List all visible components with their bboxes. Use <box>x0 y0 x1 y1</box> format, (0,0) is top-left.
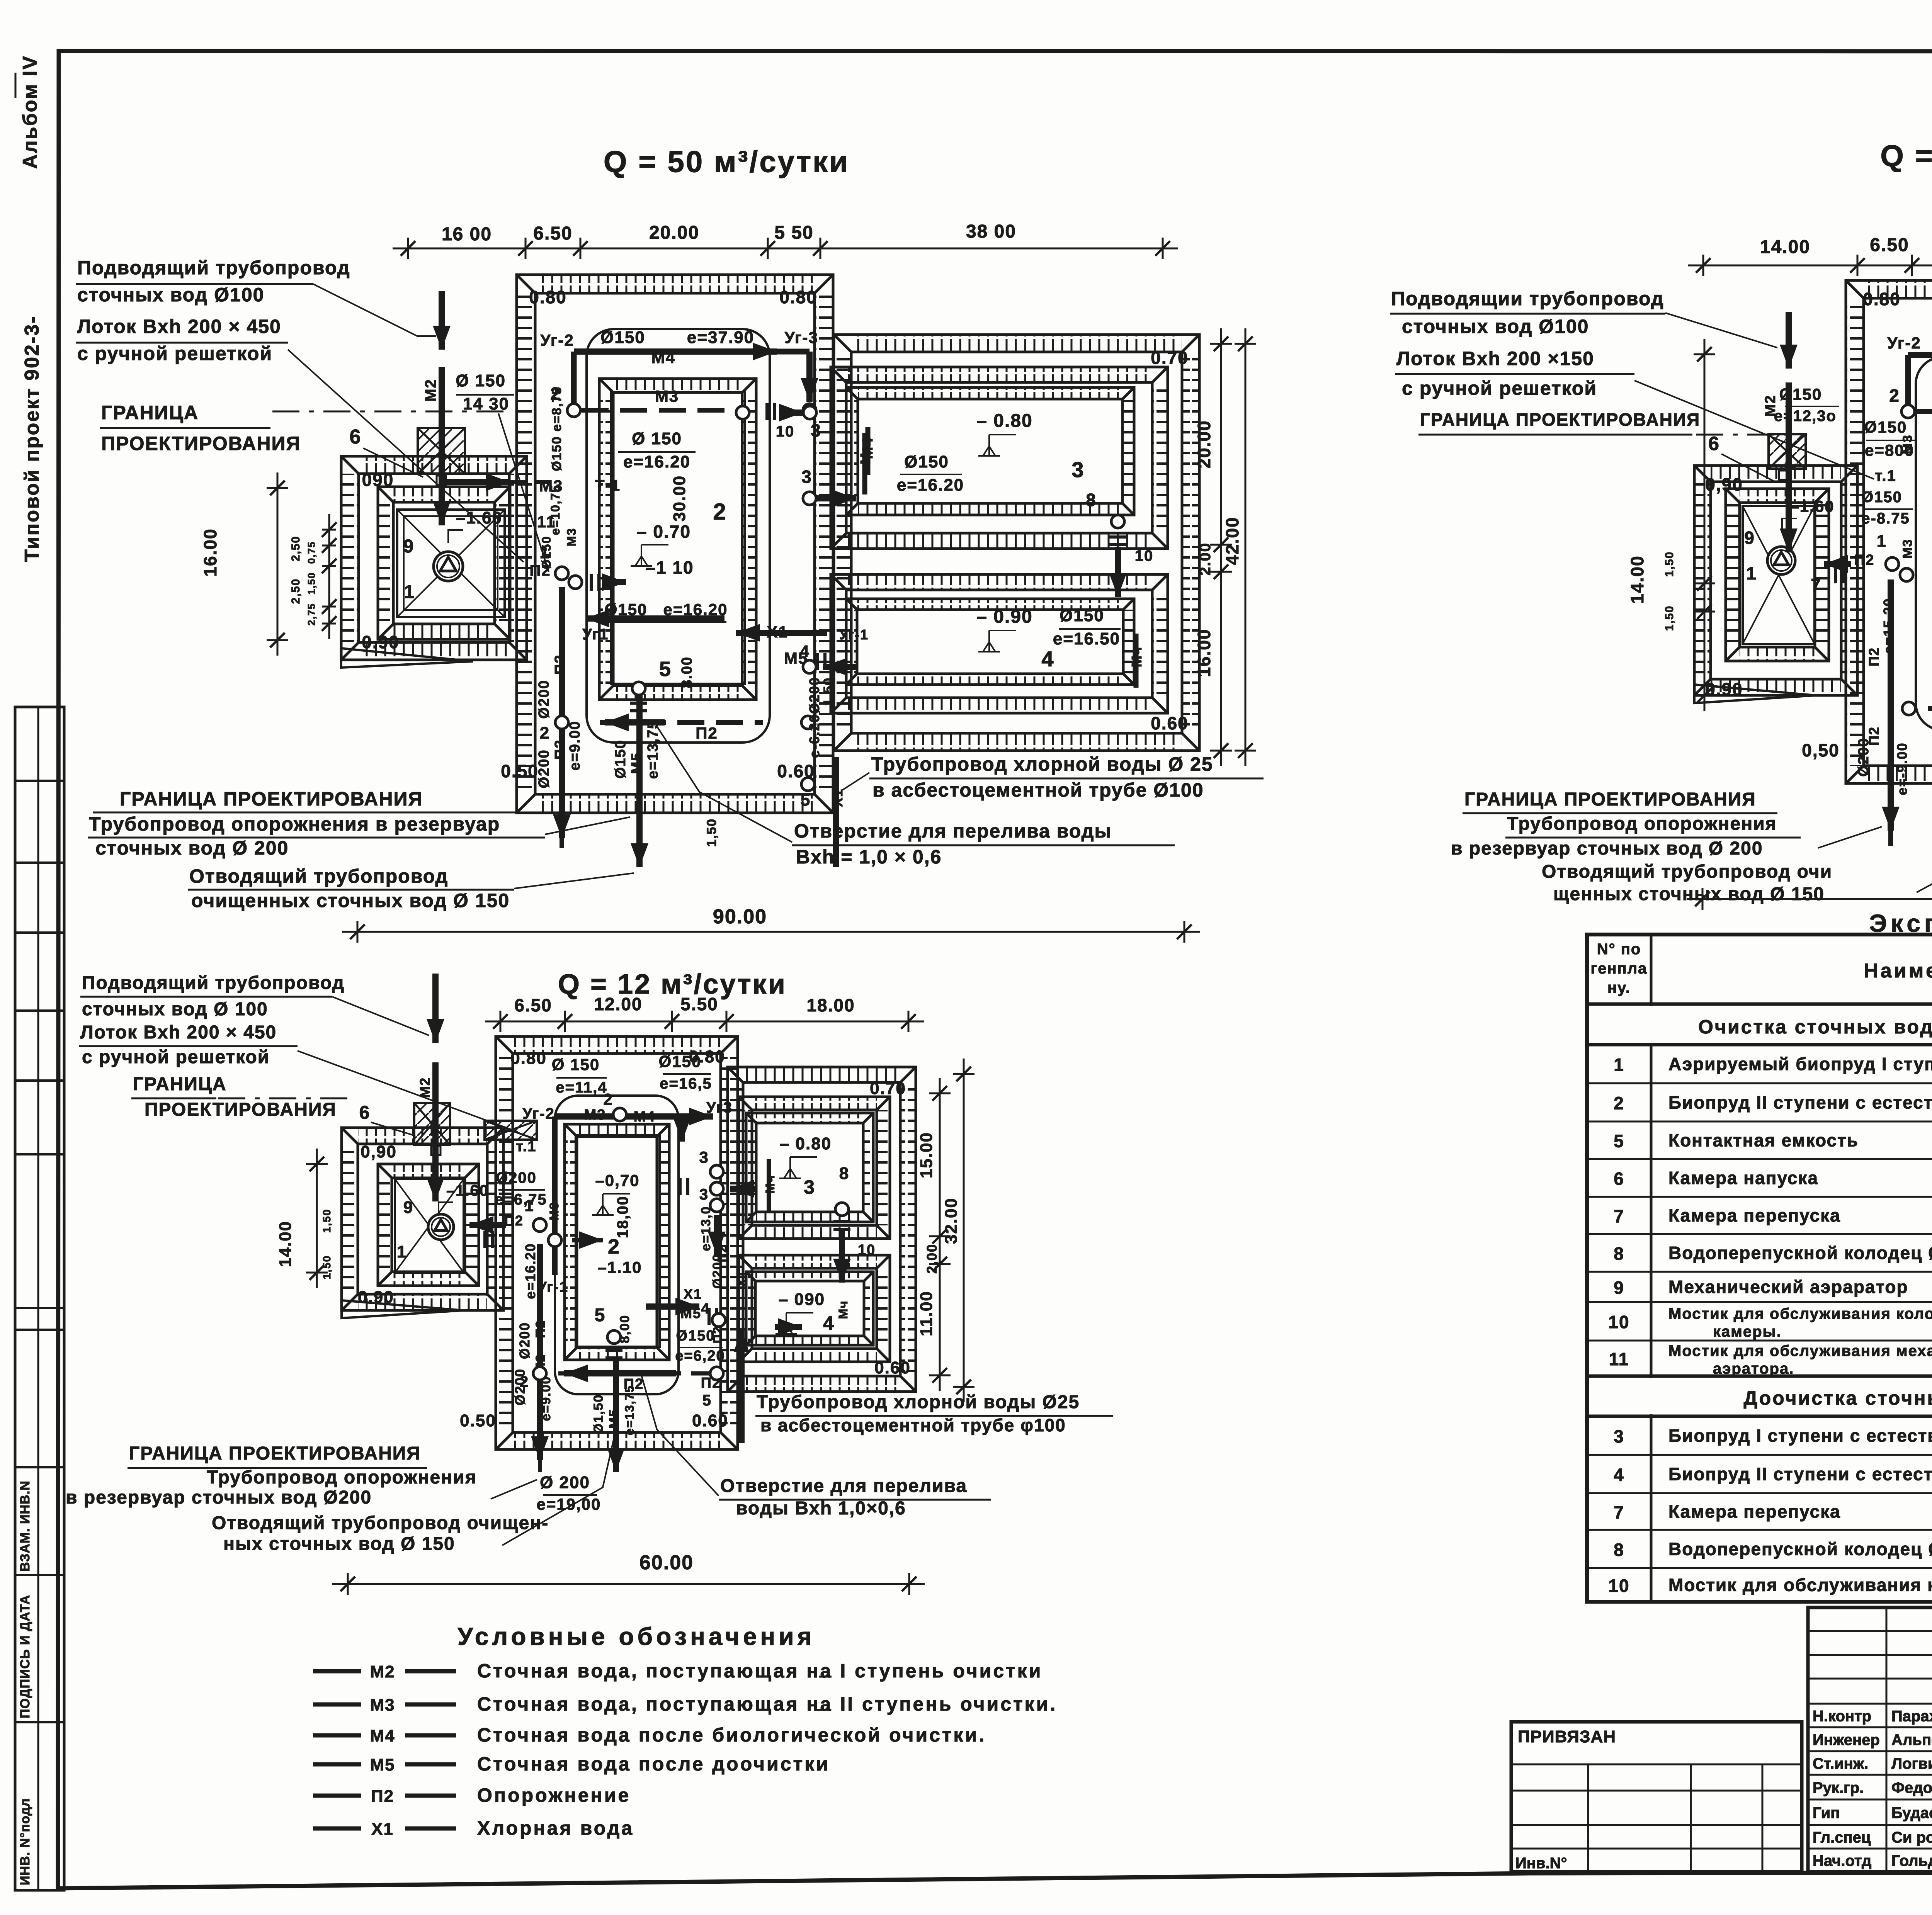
svg-text:16 00: 16 00 <box>442 224 492 245</box>
pond 4 Q12 <box>739 1255 890 1362</box>
svg-text:– 0.80: – 0.80 <box>780 1134 832 1153</box>
explication header <box>1591 939 1932 998</box>
svg-text:0.60: 0.60 <box>777 761 815 781</box>
pipe P2 drop Q12 <box>512 1244 553 1472</box>
svg-text:2: 2 <box>520 1373 529 1390</box>
title block signature table <box>1808 1607 1932 1872</box>
svg-text:Биопруд II ступени с естествен: Биопруд II ступени с естественной аэраци… <box>1668 1464 1932 1484</box>
pipe M2 inflow Q12 <box>417 974 444 1201</box>
pond 2 inner band Q12 <box>565 1124 669 1360</box>
svg-text:9: 9 <box>403 1198 413 1217</box>
svg-text:П2: П2 <box>711 1326 724 1344</box>
svg-text:7: 7 <box>1614 1502 1624 1522</box>
svg-text:10: 10 <box>858 1242 876 1258</box>
svg-text:с ручной решеткой: с ручной решеткой <box>1402 377 1597 399</box>
svg-text:Логвинская: Логвинская <box>1891 1755 1932 1772</box>
svg-text:Отводящий трубопровод очище: Отводящий трубопровод очищен- <box>212 1513 549 1533</box>
svg-text:П2: П2 <box>552 739 568 760</box>
pond 3 labels Q50 <box>803 406 1085 494</box>
svg-text:Х1: Х1 <box>830 788 845 807</box>
svg-text:Аэрируемый биопруд I ступе: Аэрируемый биопруд I ступени <box>1668 1054 1932 1074</box>
svg-text:10: 10 <box>1608 1576 1629 1596</box>
legend row Х1 <box>313 1817 634 1839</box>
svg-text:М3: М3 <box>1900 539 1915 558</box>
svg-text:аэратора.: аэратора. <box>1713 1360 1794 1377</box>
svg-text:Наименование: Наименование <box>1864 960 1932 982</box>
explication row 6 <box>1614 1168 1932 1189</box>
project title rotated <box>21 316 43 562</box>
svg-text:М3: М3 <box>370 1696 395 1714</box>
svg-text:ПОДПИСЬ И ДАТА: ПОДПИСЬ И ДАТА <box>18 1595 32 1718</box>
svg-text:0,75: 0,75 <box>306 541 317 564</box>
svg-text:0.80: 0.80 <box>1863 289 1901 309</box>
svg-text:Гл.спец: Гл.спец <box>1813 1829 1871 1846</box>
aerator Q12 <box>428 1214 454 1240</box>
svg-text:e=16.20: e=16.20 <box>623 452 690 471</box>
svg-text:9: 9 <box>1744 528 1755 548</box>
svg-text:0.70: 0.70 <box>870 1079 906 1098</box>
svg-text:2.00: 2.00 <box>1197 542 1214 576</box>
svg-text:П2: П2 <box>533 1320 548 1338</box>
svg-text:Мостик для обслуживания ме: Мостик для обслуживания механического <box>1668 1342 1932 1359</box>
svg-text:М3: М3 <box>584 1107 606 1123</box>
svg-text:090: 090 <box>362 470 394 490</box>
pipe P2 left drop Q50 <box>530 542 626 848</box>
svg-text:ну.: ну. <box>1607 979 1631 996</box>
svg-text:Отводящий трубопровод: Отводящий трубопровод <box>189 865 448 887</box>
svg-text:0,90: 0,90 <box>1705 474 1743 494</box>
svg-text:–1.60: –1.60 <box>1790 497 1834 515</box>
pond 2 outer berm Q50 <box>517 275 833 813</box>
svg-text:Трубопровод опорожнения в р: Трубопровод опорожнения в резервуар <box>89 813 500 835</box>
Q50 left callout labels <box>76 257 524 562</box>
svg-text:18.00: 18.00 <box>806 995 855 1015</box>
pipe M4 over pond Q25 <box>1908 294 1932 411</box>
legend title <box>457 1623 815 1650</box>
svg-text:Ø200: Ø200 <box>806 677 822 714</box>
svg-text:9: 9 <box>403 536 415 557</box>
svg-text:Ø150: Ø150 <box>676 1328 715 1344</box>
svg-text:М4: М4 <box>634 1109 656 1125</box>
inlet chamber 6 Q25 <box>1769 434 1806 480</box>
svg-text:ПРОЕКТИРОВАНИЯ: ПРОЕКТИРОВАНИЯ <box>101 433 301 454</box>
svg-text:Сточная вода после биоло: Сточная вода после биологической очистки… <box>477 1724 986 1746</box>
pipe X1 Q50 <box>736 623 869 867</box>
svg-text:e=13,75: e=13,75 <box>622 1385 636 1436</box>
svg-text:П2: П2 <box>1854 552 1874 568</box>
svg-text:6.50: 6.50 <box>1870 235 1909 255</box>
album title rotated <box>15 55 41 169</box>
svg-text:Контактная емкость: Контактная емкость <box>1668 1130 1859 1150</box>
right dimensions Q50 <box>1194 328 1256 766</box>
svg-text:e=15.20: e=15.20 <box>1881 598 1896 654</box>
svg-text:e=12,3о: e=12,3о <box>1774 408 1837 425</box>
explication row 7 <box>1614 1205 1932 1226</box>
svg-text:ИНВ. N°подл: ИНВ. N°подл <box>18 1798 32 1885</box>
svg-text:e=9.00: e=9.00 <box>567 720 583 770</box>
svg-text:1,50: 1,50 <box>321 1255 333 1279</box>
svg-text:Доочистка сточных вод: Доочистка сточных вод <box>1743 1387 1932 1409</box>
pipe X1 Q12 <box>646 1270 749 1443</box>
svg-text:1: 1 <box>404 582 415 602</box>
svg-text:Ø150: Ø150 <box>612 740 629 779</box>
svg-text:4: 4 <box>823 1312 835 1334</box>
ponds 3-4 outer berm Q12 <box>728 1067 916 1392</box>
pipe M3 mid Q25 <box>1889 386 1932 440</box>
svg-text:Ø200: Ø200 <box>536 680 552 719</box>
svg-text:38 00: 38 00 <box>966 221 1016 242</box>
svg-text:60.00: 60.00 <box>639 1551 694 1574</box>
svg-text:Мостик для обслуживания кол: Мостик для обслуживания колодцев и <box>1668 1305 1932 1322</box>
svg-text:2: 2 <box>1614 1093 1624 1113</box>
svg-text:Камера напуска: Камера напуска <box>1668 1168 1818 1188</box>
pond 3 Q12 <box>739 1097 890 1239</box>
svg-text:1,50: 1,50 <box>306 572 317 595</box>
svg-text:М3: М3 <box>655 387 679 405</box>
svg-text:генпла: генпла <box>1591 960 1648 977</box>
svg-text:с ручной решеткой: с ручной решеткой <box>77 343 272 364</box>
title block left box <box>1511 1722 1802 1872</box>
svg-text:Опорожнение: Опорожнение <box>477 1784 631 1806</box>
svg-text:Ø200: Ø200 <box>517 1322 532 1359</box>
explication row 8b <box>1614 1539 1932 1560</box>
pond 3 Q50 <box>831 367 1168 549</box>
node 3 right + M4 drop Q50 <box>801 427 876 507</box>
svg-text:П2: П2 <box>1866 647 1882 666</box>
svg-text:Лоток Bxh 200 × 450: Лоток Bxh 200 × 450 <box>80 1022 277 1043</box>
svg-text:П2: П2 <box>696 724 718 742</box>
svg-text:Сточная вода после доочи: Сточная вода после доочистки <box>477 1753 830 1775</box>
svg-text:Гип: Гип <box>1813 1805 1840 1822</box>
svg-text:ПРИВЯЗАН: ПРИВЯЗАН <box>1518 1727 1616 1746</box>
pond 2 outer berm Q25 <box>1846 280 1932 783</box>
svg-text:7: 7 <box>1811 575 1821 595</box>
svg-text:Уг-1: Уг-1 <box>839 627 869 642</box>
svg-text:М2: М2 <box>422 379 439 402</box>
plan Q=50 top dimension line <box>393 221 1178 259</box>
svg-text:0.60: 0.60 <box>874 1358 911 1377</box>
svg-text:0.80: 0.80 <box>529 287 567 307</box>
svg-text:0.80: 0.80 <box>510 1049 547 1068</box>
svg-text:Ø150: Ø150 <box>1861 489 1902 506</box>
svg-text:8.00: 8.00 <box>679 656 695 688</box>
svg-text:Мч: Мч <box>763 1175 777 1194</box>
inlet chamber 6 Q50 <box>418 428 465 485</box>
svg-text:П2: П2 <box>1866 726 1882 746</box>
Q50 bottom callout labels <box>88 788 634 911</box>
svg-text:Парахина: Парахина <box>1891 1708 1932 1725</box>
svg-text:Механический аэраратор: Механический аэраратор <box>1668 1277 1908 1297</box>
svg-text:8,00: 8,00 <box>617 1315 632 1343</box>
svg-text:ГРАНИЦА ПРОЕКТИРОВАНИЯ: ГРАНИЦА ПРОЕКТИРОВАНИЯ <box>120 788 423 810</box>
left dimension Q12 <box>276 1149 333 1288</box>
svg-text:Гольдман: Гольдман <box>1891 1852 1932 1869</box>
svg-text:камеры.: камеры. <box>1713 1323 1782 1340</box>
bottom dimension 60.00 Q12 <box>332 1551 925 1595</box>
svg-text:0.70: 0.70 <box>1151 348 1189 368</box>
svg-text:5: 5 <box>1614 1131 1624 1151</box>
svg-text:2: 2 <box>713 499 726 525</box>
svg-text:12.00: 12.00 <box>594 994 642 1014</box>
svg-text:20.00: 20.00 <box>649 223 699 243</box>
svg-text:П2: П2 <box>624 1376 644 1392</box>
svg-text:6: 6 <box>359 1103 371 1123</box>
svg-text:М5: М5 <box>370 1755 395 1774</box>
svg-text:Федорова: Федорова <box>1891 1779 1932 1796</box>
small labels Q25 <box>1705 289 1932 760</box>
svg-text:1,50: 1,50 <box>1663 605 1676 631</box>
svg-text:в резервуар сточных вод Ø200: в резервуар сточных вод Ø200 <box>66 1487 372 1508</box>
svg-text:3: 3 <box>1614 1426 1624 1446</box>
svg-text:1: 1 <box>1614 1055 1624 1075</box>
svg-text:Инв.N°: Инв.N° <box>1515 1855 1567 1872</box>
svg-text:8: 8 <box>1614 1540 1624 1560</box>
right dimensions Q12 <box>917 1059 975 1402</box>
Q12 right bottom callouts <box>641 1375 1113 1519</box>
svg-text:Х1: Х1 <box>371 1820 394 1839</box>
svg-text:М5: М5 <box>607 1409 621 1428</box>
svg-text:М4: М4 <box>651 348 675 367</box>
svg-text:Ø150 e=8,75: Ø150 e=8,75 <box>549 386 564 471</box>
svg-text:Отводящий трубопровод очи: Отводящий трубопровод очи <box>1542 861 1832 882</box>
svg-text:ных сточных вод Ø 150: ных сточных вод Ø 150 <box>223 1534 455 1554</box>
svg-text:e=6,75: e=6,75 <box>495 1191 547 1208</box>
plan Q=12 top dimension <box>485 994 924 1032</box>
svg-text:Ø1,50: Ø1,50 <box>591 1394 606 1434</box>
svg-text:1: 1 <box>1746 563 1757 583</box>
svg-text:– 0.90: – 0.90 <box>976 607 1032 627</box>
svg-text:10: 10 <box>776 423 795 440</box>
svg-text:М2: М2 <box>370 1662 395 1681</box>
Q25 left callout labels <box>1390 288 1874 479</box>
svg-text:Q = 12 м³/сутки: Q = 12 м³/сутки <box>558 969 787 1000</box>
svg-text:Трубопровод опорожнения: Трубопровод опорожнения <box>1507 814 1777 834</box>
node 1 Q12 <box>469 1196 603 1249</box>
svg-text:16.00: 16.00 <box>200 528 220 576</box>
svg-text:в асбестоцементной трубе φ100: в асбестоцементной трубе φ100 <box>760 1415 1066 1435</box>
aerator 9 Q50 <box>434 552 463 581</box>
svg-text:Bxh = 1,0 × 0,6: Bxh = 1,0 × 0,6 <box>796 846 942 868</box>
svg-text:0.50: 0.50 <box>501 761 539 781</box>
pipe M3/M4 top Q12 <box>555 1090 757 1275</box>
svg-text:4: 4 <box>1614 1465 1624 1485</box>
svg-text:ГРАНИЦА: ГРАНИЦА <box>101 402 199 423</box>
svg-text:Уг-2: Уг-2 <box>1887 334 1921 352</box>
node 2 Q50 <box>550 384 580 417</box>
pipe M5 drop Q12 <box>591 1330 636 1472</box>
svg-text:– 0.70: – 0.70 <box>637 522 691 542</box>
svg-text:в асбестоцементной трубе Ø: в асбестоцементной трубе Ø100 <box>872 779 1204 801</box>
explication row 4b <box>1614 1464 1932 1485</box>
left dimension Q25 <box>1627 339 1715 711</box>
bottom dimension 67.00 Q25 <box>1687 874 1932 910</box>
svg-text:2: 2 <box>1889 386 1900 406</box>
pond 1 outer berm Q12 <box>342 1128 503 1318</box>
svg-text:воды Bxh 1,0×0,6: воды Bxh 1,0×0,6 <box>736 1498 906 1519</box>
svg-text:6: 6 <box>1708 433 1720 454</box>
svg-text:4: 4 <box>800 642 810 660</box>
svg-text:16.00: 16.00 <box>1194 629 1214 677</box>
svg-text:1: 1 <box>524 1196 534 1215</box>
svg-text:e=16,5: e=16,5 <box>660 1075 712 1092</box>
pipe M3 dashed mid Q50 <box>582 387 803 421</box>
svg-text:Ø150: Ø150 <box>600 328 645 347</box>
svg-text:М4: М4 <box>370 1726 395 1745</box>
svg-text:0.80: 0.80 <box>779 287 817 307</box>
svg-text:Уг-2: Уг-2 <box>522 1105 555 1122</box>
svg-text:e=11,4: e=11,4 <box>556 1079 607 1096</box>
pond 1 outer berm Q50 <box>341 456 527 668</box>
svg-text:Уг-1: Уг-1 <box>537 1279 568 1295</box>
svg-text:2: 2 <box>608 1235 620 1258</box>
svg-text:1,50: 1,50 <box>1663 551 1676 577</box>
svg-text:Водоперепускной колодец Ø: Водоперепускной колодец Ø1.5 <box>1668 1539 1932 1559</box>
explication row 10b <box>1608 1575 1932 1596</box>
svg-text:Рук.гр.: Рук.гр. <box>1813 1779 1864 1796</box>
svg-text:М3: М3 <box>1900 434 1915 454</box>
svg-text:Биопруд II ступени с естествен: Биопруд II ступени с естественной аэраци… <box>1668 1093 1932 1113</box>
legend row П2 <box>313 1784 631 1806</box>
inlet chamber 6 Q12 <box>414 1103 537 1155</box>
svg-text:с ручной решеткой: с ручной решеткой <box>82 1047 270 1067</box>
svg-text:т.1: т.1 <box>516 1138 537 1155</box>
svg-text:3: 3 <box>811 420 821 440</box>
svg-text:e=16.20: e=16.20 <box>897 476 964 494</box>
svg-text:e=19,00: e=19,00 <box>537 1495 601 1513</box>
svg-text:0.50: 0.50 <box>460 1411 496 1430</box>
svg-text:П2: П2 <box>504 1213 524 1229</box>
svg-text:М3: М3 <box>565 528 578 546</box>
svg-text:5.50: 5.50 <box>680 994 718 1014</box>
svg-text:3: 3 <box>699 1148 709 1166</box>
svg-text:Камера перепуска: Камера перепуска <box>1668 1502 1841 1522</box>
svg-text:1,50: 1,50 <box>704 818 719 847</box>
svg-text:0.90: 0.90 <box>362 632 400 652</box>
svg-text:0.60: 0.60 <box>692 1411 728 1430</box>
svg-text:Т-1: Т-1 <box>595 477 621 494</box>
plan Q=25 title <box>1880 139 1932 173</box>
labels inside pond 2 Q50 <box>585 429 728 627</box>
svg-text:Х1: Х1 <box>735 1270 749 1287</box>
svg-text:Ст.инж.: Ст.инж. <box>1813 1755 1868 1772</box>
svg-text:15.00: 15.00 <box>917 1132 936 1178</box>
svg-text:3: 3 <box>699 1186 709 1203</box>
svg-text:Ø150: Ø150 <box>1779 385 1822 403</box>
svg-text:Трубопровод хлорной воды Ø25: Трубопровод хлорной воды Ø25 <box>757 1392 1080 1412</box>
svg-text:0.90: 0.90 <box>358 1288 394 1307</box>
pond 4 labels Q50 <box>976 606 1145 688</box>
svg-text:ВЗАМ. ИНВ.N: ВЗАМ. ИНВ.N <box>18 1480 32 1572</box>
svg-text:М3: М3 <box>547 1202 561 1220</box>
svg-text:18,00: 18,00 <box>614 1196 631 1238</box>
svg-text:Биопруд I ступени с естественн: Биопруд I ступени с естественной аэрацие… <box>1668 1426 1932 1446</box>
explication row 3b <box>1614 1426 1932 1446</box>
svg-text:6: 6 <box>1614 1169 1624 1189</box>
svg-text:Сточная вода, поступающая: Сточная вода, поступающая на II ступень … <box>477 1693 1057 1715</box>
legend row М2 <box>313 1660 1043 1682</box>
svg-text:Типовой проект 902-3-: Типовой проект 902-3- <box>21 316 43 562</box>
svg-text:–1.60: –1.60 <box>446 1182 489 1199</box>
svg-text:e=16.50: e=16.50 <box>1053 629 1120 648</box>
svg-text:90.00: 90.00 <box>713 906 767 928</box>
svg-text:2,75: 2,75 <box>306 603 317 626</box>
svg-text:Лоток Bxh 200 ×150: Лоток Bxh 200 ×150 <box>1396 348 1594 369</box>
node 1 P2 Q25 <box>1811 532 1913 595</box>
svg-text:9: 9 <box>1614 1278 1624 1298</box>
svg-text:5: 5 <box>659 658 672 681</box>
svg-text:Лоток Bxh 200 × 450: Лоток Bxh 200 × 450 <box>77 316 281 337</box>
explication table grid <box>1587 935 1932 1602</box>
ponds 3-4 outer berm Q50 <box>834 335 1199 751</box>
svg-text:Ø 200: Ø 200 <box>540 1473 590 1492</box>
svg-text:0,50: 0,50 <box>1802 740 1840 760</box>
svg-text:Альперович: Альперович <box>1891 1731 1932 1748</box>
pipe P2 bottom Q25 <box>1902 700 1932 734</box>
svg-text:Q = 25 м³ / сутки: Q = 25 м³ / сутки <box>1880 139 1932 173</box>
svg-text:М5: М5 <box>680 1305 701 1321</box>
svg-text:ГРАНИЦА ПРОЕКТИРОВАНИЯ: ГРАНИЦА ПРОЕКТИРОВАНИЯ <box>1464 789 1756 810</box>
pipe P2 bottom Q12 <box>520 1364 723 1409</box>
svg-text:8: 8 <box>1086 490 1097 510</box>
svg-text:14.00: 14.00 <box>1760 237 1810 257</box>
bottom dimension 90.00 Q50 <box>342 906 1200 943</box>
svg-text:e=6,20: e=6,20 <box>675 1348 725 1364</box>
svg-text:2,50: 2,50 <box>289 578 302 604</box>
svg-text:e=16.20: e=16.20 <box>522 1243 538 1299</box>
svg-text:5: 5 <box>595 1305 606 1325</box>
svg-text:5 50: 5 50 <box>774 223 813 243</box>
svg-text:e=13,0: e=13,0 <box>699 1206 713 1251</box>
svg-text:Ø150: Ø150 <box>1864 418 1907 436</box>
pipe M2 inflow Q50 <box>422 291 451 525</box>
svg-text:30.00: 30.00 <box>670 475 689 522</box>
plan Q=25 top dimension <box>1688 234 1932 276</box>
svg-text:Ø150: Ø150 <box>1060 606 1104 625</box>
svg-text:Мч: Мч <box>836 1300 850 1319</box>
Q50 right bottom callouts <box>657 726 1264 868</box>
svg-text:Ø 150: Ø 150 <box>632 429 682 448</box>
svg-text:– 090: – 090 <box>779 1290 825 1309</box>
small labels Q12 <box>358 1047 911 1430</box>
svg-text:Х1: Х1 <box>684 1286 702 1302</box>
explication band 2 <box>1743 1387 1932 1409</box>
svg-text:– 0.80: – 0.80 <box>976 411 1032 431</box>
legend row М3 <box>313 1693 1057 1715</box>
svg-text:8: 8 <box>839 1164 849 1183</box>
pond 3 labels Q12 <box>763 1134 832 1213</box>
svg-text:6.50: 6.50 <box>533 223 572 244</box>
plan Q=50 title <box>604 144 849 178</box>
svg-text:2,00: 2,00 <box>924 1244 940 1274</box>
svg-text:Нач.отд: Нач.отд <box>1813 1852 1871 1869</box>
svg-text:Си рота: Си рота <box>1891 1829 1932 1846</box>
svg-text:М2: М2 <box>417 1077 433 1098</box>
svg-text:11: 11 <box>1609 1349 1629 1369</box>
node 3b right Q12 <box>699 1186 729 1289</box>
pipe M3 from chamber Q50 <box>444 473 621 495</box>
svg-text:–0,70: –0,70 <box>595 1171 639 1189</box>
svg-text:Уг-3: Уг-3 <box>784 328 818 347</box>
svg-text:Уг-2: Уг-2 <box>540 331 574 349</box>
pond 2 outer berm Q12 <box>496 1037 738 1449</box>
svg-text:N° по: N° по <box>1597 941 1641 958</box>
explication row 7b <box>1614 1502 1932 1522</box>
node 8 bridge Q50 <box>1086 490 1153 597</box>
svg-text:e=9.00: e=9.00 <box>539 1376 553 1421</box>
svg-text:сточных вод Ø 200: сточных вод Ø 200 <box>95 837 289 859</box>
svg-text:ГРАНИЦА ПРОЕКТИРОВАНИЯ: ГРАНИЦА ПРОЕКТИРОВАНИЯ <box>129 1443 421 1464</box>
svg-text:сточных вод Ø100: сточных вод Ø100 <box>1402 316 1589 337</box>
